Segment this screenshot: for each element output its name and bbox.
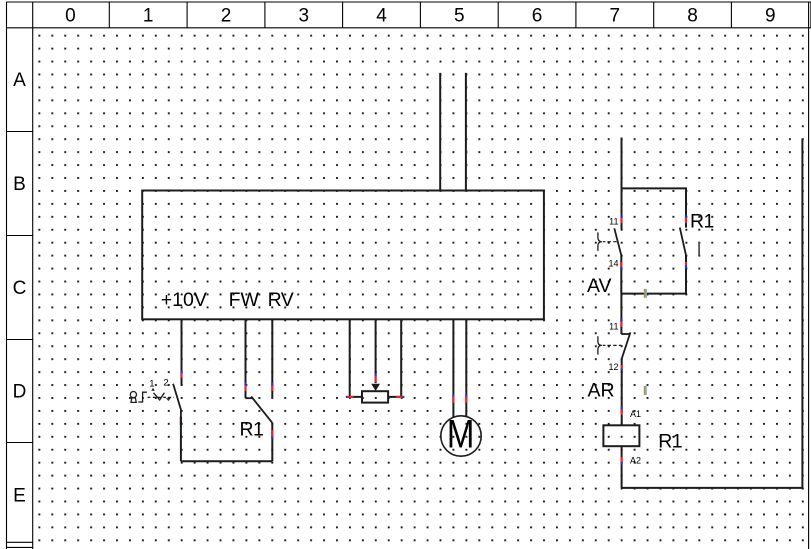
terminal R1 top — [685, 215, 687, 218]
wire FW pin — [245, 319, 247, 398]
AR lower wire — [621, 358, 623, 425]
svg-text:5: 5 — [454, 6, 465, 27]
drive unit box U1 — [142, 191, 544, 320]
switch blade — [173, 384, 181, 416]
svg-text:11: 11 — [609, 217, 618, 227]
svg-text:RV: RV — [268, 289, 294, 311]
bottom rail — [622, 487, 803, 489]
terminal AR top — [620, 319, 622, 322]
terminal — [271, 430, 273, 437]
terminal — [452, 394, 454, 397]
right rail top wire — [621, 138, 623, 230]
terminal coil top — [620, 407, 622, 410]
svg-text:A: A — [13, 70, 26, 91]
wiper arrow — [371, 384, 380, 391]
svg-text:R1: R1 — [240, 419, 264, 441]
svg-text:2: 2 — [221, 6, 232, 27]
svg-text:FW: FW — [229, 289, 260, 311]
motor wire right — [465, 319, 467, 417]
svg-text:8: 8 — [687, 6, 698, 27]
terminal — [244, 383, 246, 386]
svg-text:12: 12 — [608, 362, 618, 372]
svg-text:3: 3 — [299, 6, 310, 27]
branch wire to R1 contact — [622, 188, 687, 227]
svg-text:1: 1 — [143, 6, 154, 27]
terminal — [180, 371, 182, 374]
svg-text:M: M — [447, 412, 475, 456]
R1 contact blade — [680, 228, 686, 256]
wire to drive top right — [465, 73, 467, 191]
potentiometer left wire — [350, 319, 362, 397]
R1 contact lower wire — [685, 255, 687, 293]
terminal — [465, 394, 467, 397]
wire bottom rail to R1 contact — [181, 460, 272, 462]
mechanical link dashed — [148, 396, 174, 398]
AR actuator symbol — [598, 336, 602, 354]
small chevron — [167, 398, 171, 400]
switch V contact — [154, 393, 165, 400]
row letters — [13, 70, 27, 506]
terminal — [396, 396, 402, 398]
junction mark orange AR — [644, 386, 646, 395]
svg-text:2: 2 — [163, 378, 168, 389]
AR dashed link — [603, 344, 622, 346]
motor M1 — [441, 416, 481, 456]
svg-text:B: B — [13, 174, 26, 195]
AV contact blade — [614, 228, 621, 255]
junction mark orange — [644, 289, 646, 298]
svg-text:7: 7 — [610, 6, 621, 27]
terminal AR bottom — [621, 365, 623, 369]
terminal — [346, 396, 348, 398]
svg-text:R1: R1 — [690, 210, 714, 232]
svg-text:4: 4 — [376, 6, 387, 27]
junction mark blue — [646, 289, 647, 298]
state mark — [698, 242, 700, 256]
contact common wire — [271, 423, 273, 462]
pin 1 arrow — [151, 388, 154, 391]
AV link arrow — [608, 242, 611, 244]
svg-text:R1: R1 — [658, 430, 682, 452]
potentiometer right wire — [388, 319, 401, 397]
svg-text:C: C — [13, 278, 27, 299]
potentiometer body P1 — [362, 391, 388, 402]
AV actuator symbol — [598, 232, 602, 251]
terminal — [271, 383, 273, 386]
svg-text:0: 0 — [65, 6, 76, 27]
contact seat jog — [246, 397, 254, 399]
terminal R1 bottom — [685, 262, 687, 265]
svg-text:D: D — [13, 382, 27, 403]
svg-text:A1: A1 — [630, 409, 641, 419]
svg-text:AV: AV — [587, 275, 612, 297]
motor wire left — [452, 319, 454, 418]
svg-text:1: 1 — [149, 378, 154, 389]
terminal — [375, 373, 377, 376]
svg-text:AR: AR — [588, 380, 615, 402]
wiper wire — [375, 319, 377, 383]
coil bottom wire — [621, 446, 623, 488]
svg-text:A2: A2 — [630, 456, 641, 466]
key switch S1 — [130, 392, 147, 403]
wire +10V pin — [181, 319, 183, 386]
terminal — [180, 417, 182, 422]
rail AV to AR — [620, 294, 622, 334]
terminal AV bottom — [620, 262, 622, 267]
svg-text:+10V: +10V — [161, 289, 207, 311]
AV bottom rail — [621, 293, 686, 295]
wire RV pin — [271, 319, 273, 397]
svg-text:14: 14 — [608, 259, 618, 269]
coil R1 — [603, 425, 639, 446]
AR link arrow — [608, 346, 611, 348]
svg-text:6: 6 — [532, 6, 543, 27]
column numbers — [65, 6, 775, 27]
AR contact seat — [621, 333, 629, 335]
terminal AV top — [620, 215, 622, 218]
AR contact blade — [622, 332, 631, 358]
svg-text:11: 11 — [609, 322, 618, 332]
AV lower wire — [620, 255, 622, 293]
wire down from switch — [180, 415, 182, 461]
svg-text:9: 9 — [765, 6, 776, 27]
terminal coil bottom — [620, 457, 622, 462]
svg-text:E: E — [13, 485, 26, 506]
AV dashed link — [603, 241, 617, 243]
wire to drive top left — [439, 73, 441, 191]
contact R1 blade — [251, 396, 272, 422]
right rail — [801, 139, 803, 488]
junction mark blue AR — [645, 386, 646, 395]
